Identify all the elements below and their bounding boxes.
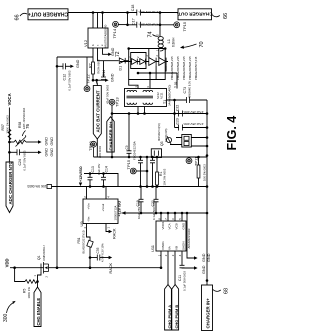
svg-text:C14: C14	[105, 166, 109, 172]
svg-text:JA4469(BOARD): JA4469(BOARD)	[167, 85, 171, 106]
svg-text:0.1uF 50V 0603: 0.1uF 50V 0603	[67, 70, 71, 90]
node C24	[8, 151, 11, 154]
svg-text:V12: V12	[83, 39, 88, 47]
node x57 join	[56, 266, 59, 269]
power VDD	[5, 258, 10, 267]
svg-text:GND: GND	[45, 137, 49, 146]
svg-text:U9: U9	[79, 221, 84, 227]
svg-text:C22: C22	[175, 105, 179, 111]
svg-text:MMSH4E 6.3V: MMSH4E 6.3V	[188, 81, 192, 98]
svg-text:47uF 25V 20%: 47uF 25V 20%	[183, 110, 203, 114]
capacitor C73	[183, 81, 192, 103]
capacitor C17	[131, 18, 158, 27]
relay K1	[170, 135, 207, 148]
capacitor C12	[57, 63, 71, 90]
resistor R7	[89, 59, 101, 74]
transformer T1	[125, 85, 178, 107]
svg-text:C13: C13	[91, 166, 95, 172]
wire top rail	[68, 12, 178, 14]
svg-text:55: 55	[174, 81, 178, 85]
node y73-a	[137, 72, 140, 75]
inductor L1	[156, 13, 176, 52]
svg-text:MUST6TA/BG0R0: MUST6TA/BG0R0	[104, 24, 108, 47]
net RACK (U9)	[109, 228, 117, 239]
node R7 bottom	[92, 79, 95, 82]
node rail-L1	[159, 11, 162, 14]
node y157-157	[156, 156, 159, 159]
ground (R58)	[45, 137, 55, 146]
svg-text:ADC BAT CURRENT: ADC BAT CURRENT	[96, 90, 101, 132]
svg-text:-Vin: -Vin	[86, 216, 90, 222]
node U11 pin1	[160, 266, 163, 269]
node rail-280	[206, 279, 209, 282]
node rail-155	[206, 154, 209, 157]
wire gnd row	[93, 79, 105, 81]
wire V12 pin1 down	[92, 48, 94, 62]
svg-text:0.1uF 50V 0603: 0.1uF 50V 0603	[23, 150, 27, 170]
wire right rail x207	[206, 100, 208, 285]
wire Q1 gate	[38, 272, 42, 287]
svg-text:CHG ENABLE: CHG ENABLE	[36, 298, 41, 326]
wire U9 pin3 to FB1	[87, 224, 91, 241]
svg-text:10uF 25V 0805: 10uF 25V 0805	[137, 199, 141, 219]
test point TP14	[112, 21, 118, 38]
node C17-right	[159, 24, 162, 27]
capacitor C22	[175, 105, 203, 117]
node rail-127	[206, 126, 209, 129]
node C12 tap	[56, 65, 59, 68]
svg-text:CHARGER IN+: CHARGER IN+	[108, 121, 113, 151]
svg-text:TP10: TP10	[88, 141, 93, 151]
callout 300	[3, 301, 16, 322]
svg-text:GND: GND	[45, 148, 49, 157]
capacitor C19	[136, 187, 144, 220]
wire row y157	[94, 156, 208, 158]
test point TP12	[84, 57, 90, 92]
ground (V12)	[106, 47, 116, 56]
svg-text:BLM18SG221TN1D: BLM18SG221TN1D	[82, 230, 86, 253]
wire y173.5	[84, 174, 118, 187]
ground (C14 row)	[105, 73, 115, 82]
node U11 p6	[174, 212, 177, 215]
wire C73 row	[167, 99, 208, 101]
node U11 p8	[160, 212, 163, 215]
svg-text:10K 5% 0603: 10K 5% 0603	[27, 184, 46, 188]
svg-text:66: 66	[15, 14, 21, 20]
svg-text:GND: GND	[50, 148, 54, 157]
wire row y113.5	[112, 113, 207, 115]
node U11 p5	[181, 212, 184, 215]
svg-text:DMP2035U-7: DMP2035U-7	[42, 244, 46, 260]
ground (C24)	[45, 148, 55, 157]
wire bottom main line	[10, 267, 161, 269]
svg-text:RACK: RACK	[113, 228, 117, 239]
svg-text:VDD: VDD	[5, 258, 10, 267]
transistor Q3	[157, 123, 172, 146]
node rail-137	[206, 136, 209, 139]
wire U11 gnd branch	[187, 213, 194, 258]
node T1-p2	[137, 112, 140, 115]
svg-text:D30(D,315): D30(D,315)	[164, 128, 168, 142]
svg-text:66: 66	[223, 13, 229, 19]
svg-text:TP15: TP15	[182, 21, 187, 31]
wire rail y186.5	[52, 186, 208, 188]
wire diode taps	[149, 49, 166, 80]
svg-text:GND: GND	[207, 253, 211, 262]
wire left column x57	[56, 57, 58, 268]
node y157-TP13	[111, 156, 114, 159]
test point TP15 (top)	[174, 21, 187, 31]
svg-text:TP14: TP14	[112, 28, 117, 38]
wire V12 pin2 to D1	[98, 48, 119, 61]
svg-text:PMEG2005CT,215: PMEG2005CT,215	[194, 56, 198, 80]
svg-text:C24: C24	[18, 159, 22, 165]
svg-text:+12V/ISO: +12V/ISO	[79, 166, 83, 182]
svg-text:L1: L1	[166, 38, 171, 43]
svg-text:R7: R7	[89, 63, 93, 68]
svg-text:NC11: NC11	[160, 92, 164, 99]
net flag CHG ENABLE	[34, 287, 41, 327]
svg-text:CHARGER OUT-: CHARGER OUT-	[176, 11, 212, 16]
capacitor C14	[101, 61, 106, 80]
node r186-140	[139, 185, 142, 188]
voltage label VOCA	[7, 93, 12, 142]
svg-text:CHARGER IN+: CHARGER IN+	[206, 298, 211, 329]
node VDD-R5	[13, 266, 16, 269]
svg-text:100K 1% 0603: 100K 1% 0603	[5, 115, 9, 134]
node y157-147	[146, 156, 149, 159]
wire V12 top pins	[93, 13, 103, 29]
capacitor C35	[89, 243, 109, 262]
resistor R5	[15, 268, 38, 299]
svg-text:TP13: TP13	[115, 97, 120, 107]
wire T1 bottom pins	[138, 107, 145, 114]
svg-text:C18: C18	[131, 5, 135, 12]
svg-text:70: 70	[199, 41, 205, 47]
svg-text:10uF 25V: 10uF 25V	[97, 163, 101, 175]
transistor V12	[83, 24, 108, 48]
svg-text:SHDN: SHDN	[181, 241, 185, 250]
resistor R21	[27, 184, 51, 189]
wire C22 branch	[175, 100, 208, 128]
capacitor C14b	[97, 163, 109, 187]
capacitor C20	[151, 187, 159, 221]
svg-text:47uF 50V 0603: 47uF 50V 0603	[106, 84, 110, 104]
wire U11 pin1	[160, 251, 162, 268]
callout 66 (right)	[212, 13, 229, 19]
node rail-146	[206, 145, 209, 148]
transistor Q1	[37, 244, 49, 277]
node flag tap	[95, 79, 98, 82]
wire R7 to gnd row	[92, 74, 94, 80]
svg-text:VIND1: VIND1	[161, 241, 165, 250]
ferrite bead FB1	[77, 230, 93, 267]
svg-text:NC12: NC12	[156, 92, 160, 99]
callout 66 (left)	[15, 13, 28, 20]
svg-text:76: 76	[25, 123, 30, 129]
svg-text:CHG PWM A: CHG PWM A	[167, 305, 172, 329]
svg-text:GND: GND	[181, 222, 185, 230]
svg-text:100K 1%: 100K 1%	[27, 287, 31, 299]
svg-text:C12: C12	[62, 74, 66, 81]
wire U9 top pins	[87, 187, 107, 200]
diode D2	[128, 56, 137, 64]
svg-text:TP12: TP12	[86, 74, 91, 84]
node rail-C18	[126, 11, 129, 14]
wire VOCA down	[8, 142, 10, 152]
net flag CHG PWM B	[172, 285, 179, 331]
node rail-213	[206, 212, 209, 215]
net flag ADC BAT CURRENT	[93, 80, 101, 157]
connector box CHARGER OUT-	[176, 9, 212, 20]
resistor R18	[197, 156, 206, 187]
wire loop inner 1	[131, 53, 146, 69]
wire U11 top pins	[161, 213, 182, 221]
svg-text:6.8mH: 6.8mH	[172, 37, 176, 47]
wire diode loop outer	[129, 49, 166, 80]
svg-text:GND: GND	[76, 59, 80, 68]
svg-text:+Vout: +Vout	[101, 204, 105, 212]
svg-text:PMEG2005EB,215: PMEG2005EB,215	[176, 56, 180, 80]
net flag CHARGER IN+ (mid)	[107, 114, 114, 153]
net flag ADC CHARGER NTC	[6, 152, 13, 212]
capacitor C23	[175, 118, 203, 130]
svg-text:CHARGER OUT+: CHARGER OUT+	[28, 10, 68, 16]
svg-text:72: 72	[115, 51, 121, 57]
wire U9 pin1 to RACK	[106, 224, 109, 232]
wire C17 row	[128, 13, 174, 25]
ground (C12)	[70, 59, 80, 68]
svg-text:7K5% 0603: 7K5% 0603	[97, 59, 101, 74]
node T1-p4	[143, 112, 146, 115]
svg-text:VCB: VCB	[175, 223, 179, 229]
test point TP16	[126, 157, 148, 187]
diode D1	[118, 58, 128, 71]
node rail-pin3	[101, 11, 104, 14]
capacitor C91	[125, 112, 137, 160]
wire U11 pin2 pin3	[168, 251, 175, 285]
callout 74	[148, 31, 159, 37]
svg-text:68: 68	[224, 288, 230, 294]
crystal box Y1	[151, 149, 161, 158]
svg-text:4.7uF 6.3V 10%: 4.7uF 6.3V 10%	[101, 243, 105, 262]
svg-text:FIG. 4: FIG. 4	[225, 116, 239, 151]
diode D5	[155, 55, 166, 66]
capacitor Cx1	[138, 156, 143, 187]
svg-text:PMEG2005EB,215: PMEG2005EB,215	[170, 56, 174, 80]
diode part numbers block	[170, 56, 198, 80]
net flag CHG PWM A	[165, 285, 172, 331]
svg-text:GND: GND	[202, 253, 206, 262]
svg-text:300: 300	[3, 313, 9, 322]
ground (C11)	[194, 265, 206, 274]
svg-text:FB1: FB1	[77, 237, 81, 243]
svg-text:20V 0603: 20V 0603	[98, 146, 102, 158]
dc-dc converter U9	[79, 196, 118, 229]
svg-text:C23: C23	[175, 118, 179, 124]
net RACK (C35)	[109, 256, 113, 274]
node rail-pin1	[92, 11, 95, 14]
node loop TR	[164, 47, 167, 50]
svg-text:Q3: Q3	[160, 141, 164, 146]
svg-text:C14: C14	[102, 70, 106, 77]
test point TP11	[186, 156, 199, 166]
node FB1 join	[89, 266, 92, 269]
test point TP10	[88, 141, 102, 158]
node gate-R5	[36, 280, 39, 283]
node TP13 row	[111, 112, 114, 115]
capacitor Cx2	[150, 156, 155, 187]
svg-text:VOCA: VOCA	[7, 93, 12, 105]
svg-text:1S0E0712A: 1S0E0712A	[114, 205, 118, 220]
capacitor C13	[88, 166, 96, 188]
node y73-b	[149, 72, 152, 75]
node C22 left	[173, 112, 176, 115]
svg-text:GND: GND	[50, 137, 54, 146]
node rail-186	[206, 185, 209, 188]
resistor R57	[1, 115, 11, 140]
svg-text:C35: C35	[96, 247, 100, 253]
svg-text:GND: GND	[111, 73, 115, 82]
power +12V/ISO (left)	[79, 166, 83, 186]
svg-text:GND: GND	[202, 265, 206, 274]
wire y57 to left column	[57, 56, 93, 58]
connector box CHARGER IN+	[202, 285, 213, 331]
node U11 p7	[167, 212, 170, 215]
svg-text:+Vin: +Vin	[86, 203, 90, 209]
svg-text:R57: R57	[1, 124, 5, 130]
svg-text:C9: C9	[125, 145, 129, 149]
node C17-left	[126, 24, 129, 27]
node r186-152	[151, 185, 154, 188]
svg-text:C17: C17	[131, 18, 135, 25]
node loop TL	[127, 47, 130, 50]
diode D4	[145, 55, 156, 66]
connector box CHARGER OUT+	[28, 9, 68, 20]
svg-text:VA: VA	[168, 246, 172, 250]
capacitor C11	[178, 251, 194, 291]
wire TP13 down	[111, 105, 113, 157]
svg-text:D1: D1	[118, 66, 122, 71]
capacitor C18	[131, 5, 158, 16]
node rail-113	[206, 112, 209, 115]
resistor R1	[156, 157, 167, 187]
svg-text:FXO24E1Z/DA: FXO24E1Z/DA	[133, 141, 137, 160]
svg-text:0.1uF 50V 0603: 0.1uF 50V 0603	[183, 271, 187, 291]
svg-text:10K 5% 0603: 10K 5% 0603	[202, 164, 206, 181]
svg-text:47uF 25V 20%: 47uF 25V 20%	[138, 23, 158, 27]
svg-text:C73: C73	[183, 87, 187, 94]
test point TP13	[109, 97, 119, 107]
node r186-157	[156, 185, 159, 188]
svg-text:U11: U11	[150, 244, 155, 252]
svg-text:47uF 25V 20%: 47uF 25V 20%	[183, 122, 203, 126]
wire TP14 to C17 row	[118, 24, 127, 26]
svg-text:47uF 25V 20%: 47uF 25V 20%	[138, 10, 158, 14]
wire loop-left to T1	[129, 80, 138, 89]
power +12V ISO (right)	[118, 201, 207, 217]
svg-text:CHG PWM B: CHG PWM B	[174, 305, 179, 329]
svg-text:VDD1: VDD1	[161, 221, 165, 229]
thermistor R58	[9, 108, 41, 147]
node R57-R58	[8, 141, 11, 144]
callout 70	[180, 41, 205, 48]
node r186-147	[146, 185, 149, 188]
svg-text:TP15: TP15	[126, 159, 131, 169]
svg-text:PMEG2005EB,215: PMEG2005EB,215	[182, 56, 186, 80]
svg-text:PMEG2005EB,215: PMEG2005EB,215	[188, 56, 192, 80]
ground (U11)	[194, 253, 211, 262]
gate driver U11	[150, 218, 191, 256]
svg-text:C11: C11	[178, 275, 182, 281]
svg-text:0.1uF 50V 0603: 0.1uF 50V 0603	[152, 200, 156, 220]
diode D3	[136, 56, 145, 64]
svg-text:VCA: VCA	[168, 223, 172, 229]
svg-text:MOSFET-N(SI): MOSFET-N(SI)	[157, 123, 161, 141]
capacitor C24	[9, 149, 41, 170]
svg-text:10K 5% 0603: 10K 5% 0603	[162, 168, 166, 185]
svg-text:ADC CHARGER NTC: ADC CHARGER NTC	[8, 160, 13, 204]
svg-text:Q1: Q1	[37, 255, 41, 260]
node C73-C22	[173, 99, 176, 102]
wire y73 feed	[138, 73, 177, 89]
wire V12 emitter gnd stub	[103, 48, 106, 54]
callout 68	[213, 288, 230, 294]
svg-text:VB: VB	[175, 246, 179, 250]
wire diode row	[120, 61, 168, 63]
